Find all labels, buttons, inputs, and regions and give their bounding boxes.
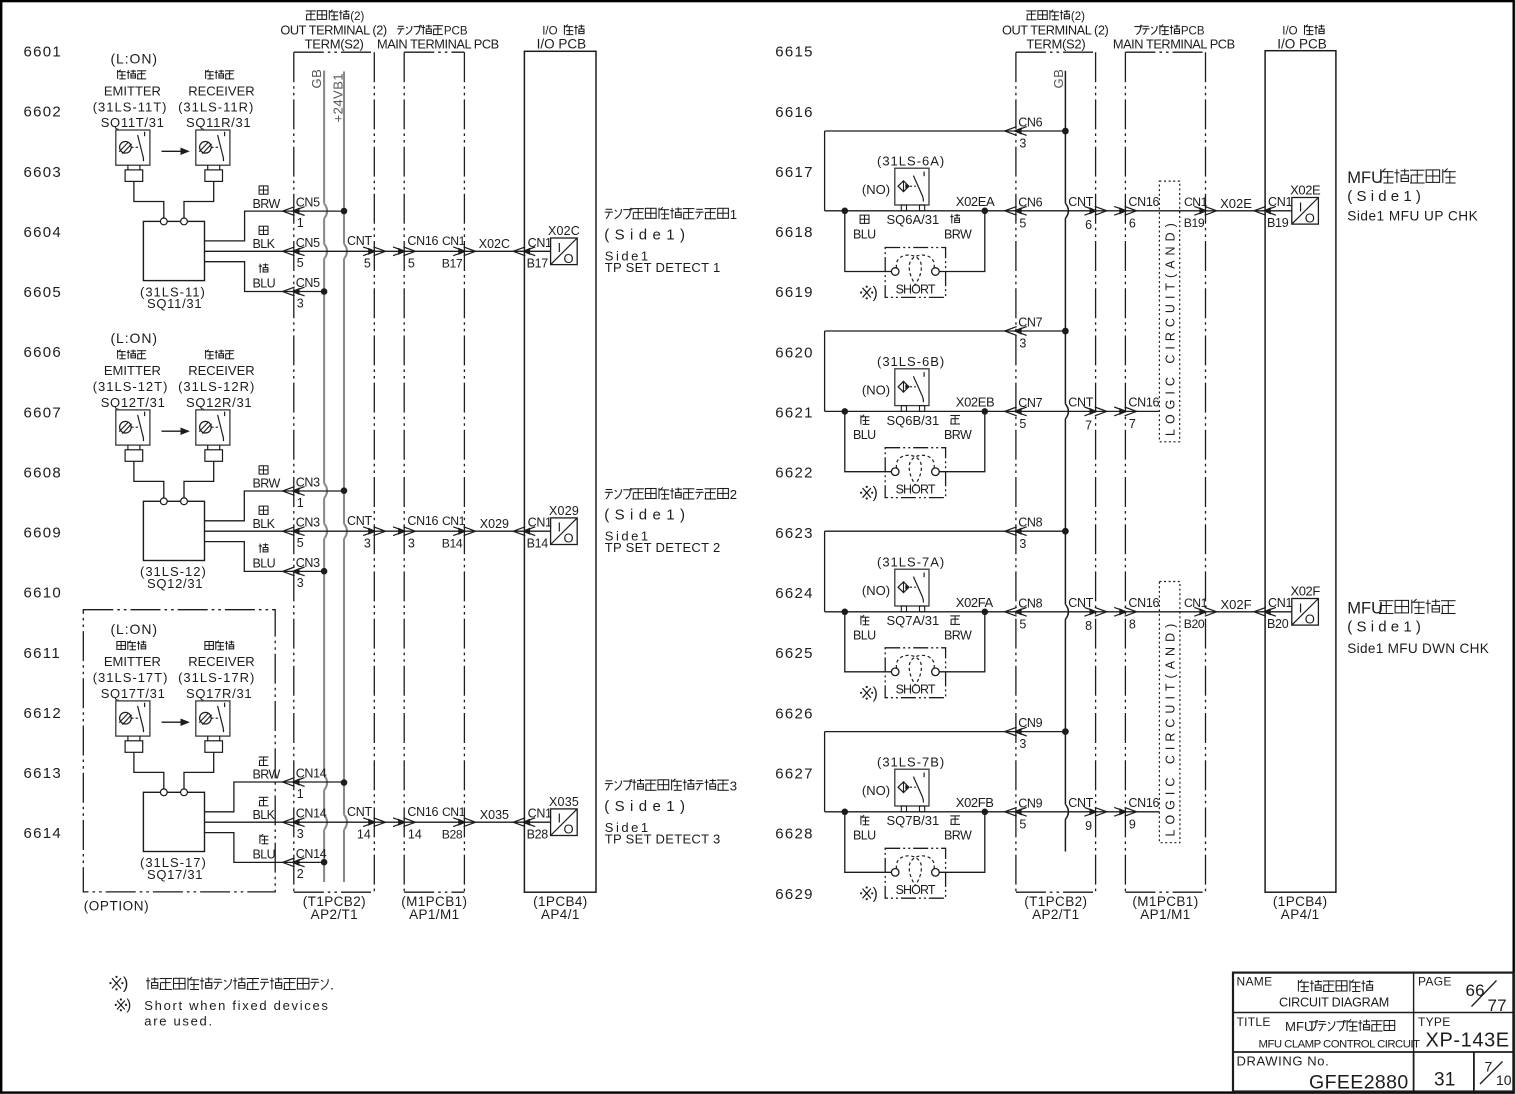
rail wire 7B bbox=[824, 732, 826, 812]
short link 6A bbox=[885, 248, 945, 298]
junction dot 6B GB bbox=[1062, 328, 1069, 335]
svg-text:6622: 6622 bbox=[775, 465, 814, 482]
svg-text:TYPE: TYPE bbox=[1418, 1015, 1451, 1029]
svg-text:): ) bbox=[873, 285, 878, 302]
svg-text:3: 3 bbox=[1019, 537, 1026, 551]
connector CN16 pin 7 bbox=[1114, 407, 1126, 416]
connector CN1 B19 io pcb bbox=[1254, 206, 1266, 215]
svg-text:Short when fixed devices: Short when fixed devices bbox=[144, 998, 329, 1013]
svg-text:(31LS-12T): (31LS-12T) bbox=[93, 379, 169, 394]
description TP SET DETECT 2 bbox=[606, 489, 613, 491]
connector CN6 pin 3 bbox=[1005, 127, 1017, 136]
svg-text:SQ12T/31: SQ12T/31 bbox=[101, 395, 166, 410]
wire emitter 17 to amp bbox=[134, 752, 164, 789]
svg-text:X02FA: X02FA bbox=[956, 595, 994, 610]
wire 6B GB return (pin 3) bbox=[825, 330, 1066, 332]
wire 17 BLK signal to I/O bbox=[205, 821, 551, 823]
svg-text:LOGIC CIRCUIT(AND): LOGIC CIRCUIT(AND) bbox=[1164, 218, 1178, 436]
switch legs 7A bbox=[901, 606, 906, 612]
svg-text:B20: B20 bbox=[1267, 617, 1289, 631]
svg-text:XP-143E: XP-143E bbox=[1426, 1030, 1510, 1052]
connector CNT pin 8 bbox=[1084, 607, 1096, 616]
svg-text:SQ17R/31: SQ17R/31 bbox=[186, 686, 252, 701]
svg-text:(L:ON): (L:ON) bbox=[111, 330, 158, 346]
svg-text:(NO): (NO) bbox=[862, 783, 890, 798]
wire 6B BLU branch bbox=[845, 411, 892, 471]
svg-text:DRAWING No.: DRAWING No. bbox=[1237, 1054, 1330, 1069]
svg-text:CNT: CNT bbox=[1068, 596, 1093, 610]
svg-text:5: 5 bbox=[297, 256, 304, 270]
svg-text:BRW: BRW bbox=[944, 227, 972, 241]
svg-text:6619: 6619 bbox=[775, 284, 814, 301]
svg-text:7: 7 bbox=[1085, 418, 1092, 432]
svg-text:3: 3 bbox=[730, 778, 737, 793]
svg-text:CN5: CN5 bbox=[296, 236, 320, 250]
svg-text:SQ7B/31: SQ7B/31 bbox=[887, 813, 940, 828]
wire 7A GB return (pin 3) bbox=[825, 530, 1066, 532]
svg-text:CN1: CN1 bbox=[442, 805, 466, 819]
svg-text:MFU CLAMP CONTROL CIRCUIT: MFU CLAMP CONTROL CIRCUIT bbox=[1259, 1038, 1421, 1050]
svg-text:CN9: CN9 bbox=[1018, 716, 1042, 730]
svg-text:LOGIC CIRCUIT(AND): LOGIC CIRCUIT(AND) bbox=[1164, 619, 1178, 837]
connector CN7 pin 5 bbox=[1005, 407, 1017, 416]
svg-text:6628: 6628 bbox=[775, 826, 814, 843]
note short when fixed devices JP bbox=[112, 978, 121, 988]
svg-text:CNT: CNT bbox=[1068, 396, 1093, 410]
svg-text:1: 1 bbox=[297, 787, 304, 801]
svg-text:MFU: MFU bbox=[1285, 1019, 1314, 1034]
svg-text:7: 7 bbox=[1129, 417, 1136, 431]
wire receiver 11 to amp bbox=[184, 181, 214, 218]
svg-text:(OPTION): (OPTION) bbox=[84, 899, 150, 914]
connector CN8 pin 3 bbox=[1005, 527, 1017, 536]
junction dot 7B GB bbox=[1062, 728, 1069, 735]
switch legs 7B bbox=[901, 806, 906, 812]
svg-text:RECEIVER: RECEIVER bbox=[188, 654, 254, 669]
svg-text:6623: 6623 bbox=[775, 525, 814, 542]
svg-text:14: 14 bbox=[408, 827, 422, 841]
svg-text:X02EB: X02EB bbox=[956, 395, 994, 410]
connector CN9 pin 5 bbox=[1005, 807, 1017, 816]
svg-text:6612: 6612 bbox=[24, 705, 63, 722]
I/O PCB box left (1PCB4) bbox=[524, 51, 596, 892]
header OUT TERMINAL(2) TERM(S2) right bbox=[1026, 10, 1036, 12]
svg-text:5: 5 bbox=[1019, 417, 1026, 431]
svg-text:14: 14 bbox=[357, 827, 371, 841]
junction dot 6B BRW branch bbox=[982, 408, 989, 415]
svg-text:MFU: MFU bbox=[1347, 169, 1383, 187]
wire color labels 11 bbox=[259, 186, 268, 194]
svg-text:6616: 6616 bbox=[775, 104, 814, 121]
connector CN3 pin 5 bbox=[283, 527, 295, 536]
svg-text:10: 10 bbox=[1496, 1072, 1512, 1088]
junction dot 6A BLU branch bbox=[842, 208, 849, 215]
connector CN8 pin 5 bbox=[1005, 607, 1017, 616]
svg-text:(31LS-7A): (31LS-7A) bbox=[877, 554, 945, 569]
svg-text:SQ6B/31: SQ6B/31 bbox=[887, 413, 940, 428]
switch legs 6A bbox=[901, 205, 906, 211]
svg-text:B19: B19 bbox=[1184, 216, 1205, 230]
svg-text:3: 3 bbox=[1019, 737, 1026, 751]
svg-text:CNT: CNT bbox=[347, 514, 372, 528]
connector CN7 pin 3 bbox=[1005, 327, 1017, 336]
svg-text:CN9: CN9 bbox=[1018, 796, 1042, 810]
wire 11 BLU to GB bbox=[205, 262, 325, 292]
wire 7B BLU branch bbox=[845, 812, 892, 873]
svg-text:6626: 6626 bbox=[775, 705, 814, 722]
svg-text:X02E: X02E bbox=[1220, 196, 1252, 211]
svg-text:CNT: CNT bbox=[347, 805, 372, 819]
short link 6B bbox=[885, 448, 945, 498]
svg-text:8: 8 bbox=[1129, 617, 1136, 631]
svg-text:6605: 6605 bbox=[24, 284, 63, 301]
connector CN16 pin 9 bbox=[1114, 807, 1126, 816]
svg-text:CN7: CN7 bbox=[1018, 316, 1042, 330]
svg-text:CN3: CN3 bbox=[296, 516, 320, 530]
svg-text:AP4/1: AP4/1 bbox=[541, 907, 580, 922]
svg-text:EMITTER: EMITTER bbox=[104, 654, 161, 669]
wire 6B signal row bbox=[825, 410, 1160, 412]
connector CN1 B14 on I/O PCB bbox=[513, 527, 525, 536]
wire 12 BLK signal to I/O bbox=[205, 530, 551, 532]
short link 7A bbox=[885, 648, 945, 698]
svg-text:6604: 6604 bbox=[24, 224, 63, 241]
wire 6B BRW branch bbox=[939, 411, 985, 471]
svg-text:(Side1): (Side1) bbox=[604, 507, 690, 524]
svg-text:I: I bbox=[1299, 199, 1303, 214]
svg-text:6621: 6621 bbox=[775, 405, 814, 422]
junction dot 7A BRW branch bbox=[982, 609, 989, 616]
wire 7B GB return (pin 3) bbox=[825, 731, 1066, 733]
svg-text:): ) bbox=[873, 885, 878, 902]
svg-text:X02FB: X02FB bbox=[956, 795, 994, 810]
rail wire 7A bbox=[824, 531, 826, 612]
svg-text:CNT: CNT bbox=[347, 234, 372, 248]
svg-text:X02C: X02C bbox=[548, 224, 580, 238]
svg-text:X035: X035 bbox=[549, 795, 579, 809]
svg-text:RECEIVER: RECEIVER bbox=[188, 363, 254, 378]
svg-text:6607: 6607 bbox=[24, 404, 63, 421]
svg-text:CN16: CN16 bbox=[1128, 195, 1159, 209]
emitter connector 17 bbox=[127, 736, 129, 741]
svg-text:3: 3 bbox=[297, 827, 304, 841]
junction dot 6B BLU branch bbox=[842, 408, 849, 415]
svg-text:6627: 6627 bbox=[775, 766, 814, 783]
wire 6A GB return (pin 3) bbox=[825, 130, 1066, 132]
connector CN16 pin 3 bbox=[393, 527, 405, 536]
svg-text:B28: B28 bbox=[527, 827, 549, 841]
connector CN16 pin 5 bbox=[393, 247, 405, 256]
connector CN1 B20 io pcb bbox=[1254, 607, 1266, 616]
svg-text:BRW: BRW bbox=[944, 428, 972, 442]
svg-text:5: 5 bbox=[1019, 617, 1026, 631]
svg-text:(Side1): (Side1) bbox=[604, 226, 690, 243]
svg-text:B20: B20 bbox=[1184, 617, 1205, 631]
svg-text:TP SET DETECT 1: TP SET DETECT 1 bbox=[605, 260, 721, 275]
description TP SET DETECT 3 bbox=[606, 780, 613, 782]
header MAIN TERMINAL PCB left bbox=[398, 25, 404, 27]
receiver connector 12 bbox=[207, 445, 209, 450]
svg-text:): ) bbox=[123, 975, 128, 993]
connector CN14 pin 2 bbox=[283, 858, 295, 867]
svg-text:3: 3 bbox=[408, 536, 415, 550]
svg-text:(NO): (NO) bbox=[862, 382, 890, 397]
svg-text:CN5: CN5 bbox=[296, 196, 320, 210]
svg-text:I: I bbox=[558, 240, 562, 255]
svg-text:77: 77 bbox=[1488, 996, 1507, 1015]
wire 12 BLU to GB bbox=[205, 542, 325, 572]
svg-text:BLU: BLU bbox=[853, 628, 876, 642]
svg-text:NAME: NAME bbox=[1237, 975, 1273, 989]
svg-text:SQ6A/31: SQ6A/31 bbox=[887, 212, 940, 227]
wire receiver 12 to amp bbox=[184, 461, 214, 498]
connector CN5 pin 5 bbox=[283, 247, 295, 256]
receiver 31LS-12R bbox=[196, 410, 230, 445]
svg-text:RECEIVER: RECEIVER bbox=[188, 83, 254, 98]
svg-text:BLK: BLK bbox=[253, 517, 276, 531]
svg-text:CN7: CN7 bbox=[1018, 396, 1042, 410]
wire 6A BRW branch bbox=[939, 211, 985, 272]
svg-text:SHORT: SHORT bbox=[896, 282, 936, 296]
svg-text:SQ11T/31: SQ11T/31 bbox=[101, 115, 165, 130]
svg-text:6608: 6608 bbox=[24, 464, 63, 481]
svg-text:8: 8 bbox=[1085, 619, 1092, 633]
connector CN16 pin 6 bbox=[1114, 206, 1126, 215]
emitter 31LS-12T bbox=[116, 410, 150, 445]
svg-text:AP4/1: AP4/1 bbox=[1281, 907, 1320, 922]
junction dot 6A GB bbox=[1062, 128, 1069, 135]
svg-text:CN1: CN1 bbox=[442, 234, 466, 248]
connector CN9 pin 3 bbox=[1005, 727, 1017, 736]
svg-text:GB: GB bbox=[1051, 69, 1066, 89]
rail wire 6B bbox=[824, 331, 826, 411]
connector CN5 pin 1 bbox=[283, 207, 295, 216]
svg-text:CN14: CN14 bbox=[296, 847, 327, 861]
svg-text:X02E: X02E bbox=[1290, 182, 1321, 197]
logic circuit AND box 2 bbox=[1159, 582, 1180, 843]
receiver connector 17 bbox=[207, 736, 209, 741]
receiver connector 11 bbox=[207, 165, 209, 170]
svg-text:EMITTER: EMITTER bbox=[104, 83, 161, 98]
svg-text:(2): (2) bbox=[1071, 11, 1085, 23]
svg-text:6601: 6601 bbox=[24, 44, 63, 61]
svg-text:CN16: CN16 bbox=[1128, 596, 1159, 610]
svg-text:6629: 6629 bbox=[775, 886, 814, 903]
svg-text:I: I bbox=[1299, 600, 1303, 615]
connector CNT pin 9 bbox=[1084, 807, 1096, 816]
svg-text:SQ12/31: SQ12/31 bbox=[147, 576, 203, 591]
svg-text:6625: 6625 bbox=[775, 645, 814, 662]
svg-text:CN8: CN8 bbox=[1018, 596, 1042, 610]
svg-text:6606: 6606 bbox=[24, 344, 63, 361]
receiver 31LS-17R bbox=[196, 701, 230, 736]
svg-text:BLU: BLU bbox=[853, 828, 876, 842]
svg-text:SQ11/31: SQ11/31 bbox=[147, 296, 202, 311]
svg-text:CN14: CN14 bbox=[296, 767, 327, 781]
svg-text:Side1 MFU DWN CHK: Side1 MFU DWN CHK bbox=[1347, 641, 1489, 656]
svg-text:2: 2 bbox=[730, 487, 737, 502]
svg-text:PAGE: PAGE bbox=[1418, 975, 1452, 989]
svg-text:SQ12R/31: SQ12R/31 bbox=[186, 395, 252, 410]
svg-text:MFU: MFU bbox=[1347, 600, 1383, 618]
svg-text:X035: X035 bbox=[480, 808, 509, 822]
svg-text:BLU: BLU bbox=[253, 848, 276, 862]
connector CNT pin 14 bbox=[363, 818, 375, 827]
svg-text:66: 66 bbox=[1466, 981, 1485, 1000]
svg-text:3: 3 bbox=[1019, 337, 1026, 351]
light beam arrow 12 bbox=[162, 430, 185, 432]
connector CN1 B28 on I/O PCB bbox=[513, 818, 525, 827]
short link 7B bbox=[885, 848, 945, 898]
svg-text:6: 6 bbox=[1129, 216, 1136, 230]
svg-text:6618: 6618 bbox=[775, 224, 814, 241]
wire 7A signal row bbox=[825, 611, 1292, 613]
svg-text:CN8: CN8 bbox=[1018, 516, 1042, 530]
wire 12 BRW to +24VB1 bbox=[205, 491, 345, 521]
svg-text:(NO): (NO) bbox=[862, 182, 890, 197]
svg-text:CN1: CN1 bbox=[442, 514, 466, 528]
connector CNT pin 3 bbox=[363, 527, 375, 536]
svg-text:(Side1): (Side1) bbox=[604, 798, 690, 815]
svg-text:GFEE2880: GFEE2880 bbox=[1309, 1072, 1409, 1094]
svg-text:6602: 6602 bbox=[24, 104, 63, 121]
emitter 31LS-17T bbox=[116, 701, 150, 736]
amplifier 31LS-11 bbox=[143, 221, 204, 280]
connector CN5 pin 3 bbox=[283, 287, 295, 296]
svg-text:X02EA: X02EA bbox=[956, 194, 995, 209]
connector CN14 pin 3 bbox=[283, 818, 295, 827]
svg-text:(31LS-17T): (31LS-17T) bbox=[93, 670, 169, 685]
svg-text:BLU: BLU bbox=[253, 277, 276, 291]
svg-text:3: 3 bbox=[297, 296, 304, 310]
svg-text:CN5: CN5 bbox=[296, 276, 320, 290]
svg-text:6617: 6617 bbox=[775, 164, 814, 181]
wire 17 BRW to +24VB1 bbox=[205, 782, 345, 812]
svg-text:B17: B17 bbox=[442, 257, 463, 271]
emitter 31LS-11T bbox=[116, 130, 150, 165]
svg-text:AP1/M1: AP1/M1 bbox=[409, 907, 459, 922]
junction dot 7A GB bbox=[1062, 528, 1069, 535]
note short when fixed devices EN bbox=[117, 1001, 125, 1010]
svg-text:CN3: CN3 bbox=[296, 556, 320, 570]
svg-text:SHORT: SHORT bbox=[896, 483, 936, 497]
svg-text:3: 3 bbox=[364, 536, 371, 550]
TERM(S2) PCB box right (T1PCB2) bbox=[1015, 52, 1017, 892]
svg-text:O: O bbox=[1305, 611, 1315, 626]
svg-text:BLU: BLU bbox=[853, 227, 876, 241]
svg-text:MAIN TERMINAL PCB: MAIN TERMINAL PCB bbox=[377, 36, 499, 51]
emitter connector 11 bbox=[127, 165, 129, 170]
svg-text:): ) bbox=[873, 485, 878, 502]
junction dot 7A BLU branch bbox=[842, 609, 849, 616]
svg-text:5: 5 bbox=[1019, 817, 1026, 831]
connector CNT pin 6 bbox=[1084, 206, 1096, 215]
svg-text:SHORT: SHORT bbox=[896, 883, 936, 897]
svg-text:CN16: CN16 bbox=[1128, 796, 1159, 810]
wire 7A BRW branch bbox=[939, 612, 985, 672]
svg-text:EMITTER: EMITTER bbox=[104, 363, 161, 378]
svg-text:O: O bbox=[564, 531, 574, 546]
svg-text:CN1: CN1 bbox=[1268, 195, 1292, 209]
emitter connector 12 bbox=[127, 445, 129, 450]
svg-text:BLK: BLK bbox=[253, 237, 276, 251]
svg-text:): ) bbox=[126, 998, 131, 1014]
wire 7A BLU branch bbox=[845, 612, 892, 672]
header OUT TERMINAL(2) TERM(S2) left bbox=[306, 10, 316, 12]
svg-text:CN16: CN16 bbox=[1128, 396, 1159, 410]
svg-text:CNT: CNT bbox=[1068, 796, 1093, 810]
svg-text:(2): (2) bbox=[350, 11, 364, 23]
svg-text:1: 1 bbox=[730, 207, 737, 222]
svg-text:B28: B28 bbox=[442, 827, 463, 841]
title block table bbox=[1233, 973, 1513, 1092]
svg-text:6603: 6603 bbox=[24, 164, 63, 181]
connector CNT pin 7 bbox=[1084, 407, 1096, 416]
MAIN TERMINAL PCB box right (M1PCB1) bbox=[1124, 52, 1126, 892]
connector CN1 B17 on I/O PCB bbox=[513, 247, 525, 256]
wire 7B BRW branch bbox=[939, 812, 985, 873]
junction dot 7B BLU branch bbox=[842, 809, 849, 816]
svg-text:CN1: CN1 bbox=[1268, 596, 1292, 610]
header MAIN TERMINAL PCB right bbox=[1134, 26, 1140, 28]
svg-text:CN6: CN6 bbox=[1018, 195, 1042, 209]
svg-text:are used.: are used. bbox=[144, 1013, 214, 1028]
svg-text:B14: B14 bbox=[527, 536, 549, 550]
MAIN TERMINAL PCB box left (M1PCB1) bbox=[403, 52, 405, 892]
svg-text:9: 9 bbox=[1129, 817, 1136, 831]
svg-text:I/O PCB: I/O PCB bbox=[537, 36, 587, 51]
svg-text:6609: 6609 bbox=[24, 525, 63, 542]
description TP SET DETECT 1 bbox=[606, 208, 613, 210]
svg-text:SQ17/31: SQ17/31 bbox=[147, 867, 203, 882]
svg-text:BRW: BRW bbox=[944, 828, 972, 842]
svg-text:5: 5 bbox=[364, 257, 371, 271]
svg-text:BLU: BLU bbox=[853, 428, 876, 442]
svg-text:AP1/M1: AP1/M1 bbox=[1140, 907, 1190, 922]
connector CN16 pin 14 bbox=[393, 818, 405, 827]
svg-text:X02F: X02F bbox=[1290, 583, 1320, 598]
svg-text:OUT TERMINAL (2): OUT TERMINAL (2) bbox=[280, 22, 387, 37]
svg-text:BLK: BLK bbox=[253, 808, 276, 822]
light beam arrow 17 bbox=[162, 721, 185, 723]
svg-text:BRW: BRW bbox=[944, 628, 972, 642]
wire 7B signal row bbox=[825, 811, 1160, 813]
svg-text:CN3: CN3 bbox=[296, 476, 320, 490]
svg-text:.: . bbox=[330, 978, 334, 994]
connector CNT pin 5 bbox=[363, 247, 375, 256]
svg-text:1: 1 bbox=[297, 216, 304, 230]
wire color labels 17 bbox=[259, 756, 269, 758]
svg-text:AP2/T1: AP2/T1 bbox=[1032, 907, 1079, 922]
svg-text:AP2/T1: AP2/T1 bbox=[311, 907, 358, 922]
light beam arrow 11 bbox=[162, 150, 185, 152]
wire 17 BLU to GB bbox=[205, 833, 325, 863]
wire emitter 12 to amp bbox=[134, 461, 164, 498]
svg-text:(31LS-11T): (31LS-11T) bbox=[93, 99, 168, 114]
svg-text:3: 3 bbox=[1019, 137, 1026, 151]
svg-text:6: 6 bbox=[1085, 218, 1092, 232]
svg-text:SHORT: SHORT bbox=[896, 683, 936, 697]
svg-text:): ) bbox=[873, 685, 878, 702]
svg-text:CIRCUIT DIAGRAM: CIRCUIT DIAGRAM bbox=[1279, 996, 1389, 1010]
svg-text:5: 5 bbox=[1019, 216, 1026, 230]
svg-text:SQ17T/31: SQ17T/31 bbox=[101, 686, 166, 701]
svg-text:5: 5 bbox=[297, 536, 304, 550]
wire color labels 12 bbox=[259, 466, 268, 474]
svg-text:(31LS-12R): (31LS-12R) bbox=[178, 379, 255, 394]
svg-text:CNT: CNT bbox=[1068, 195, 1093, 209]
svg-text:(L:ON): (L:ON) bbox=[111, 621, 158, 637]
